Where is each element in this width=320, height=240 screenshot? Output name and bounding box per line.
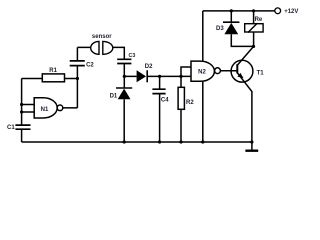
svg-text:C3: C3 (129, 53, 136, 59)
svg-text:N1: N1 (41, 107, 49, 113)
svg-text:D2: D2 (145, 64, 153, 70)
svg-text:C1: C1 (7, 125, 15, 131)
svg-text:T1: T1 (257, 70, 265, 76)
svg-text:N2: N2 (198, 70, 206, 76)
svg-text:+12V: +12V (284, 9, 298, 15)
svg-text:D3: D3 (216, 26, 224, 32)
svg-text:C2: C2 (86, 62, 94, 68)
svg-text:sensor: sensor (92, 34, 112, 40)
svg-text:R1: R1 (49, 68, 57, 74)
svg-text:C4: C4 (161, 98, 169, 104)
svg-text:R2: R2 (186, 100, 194, 106)
svg-text:D1: D1 (110, 93, 118, 99)
svg-text:Re: Re (255, 17, 263, 23)
